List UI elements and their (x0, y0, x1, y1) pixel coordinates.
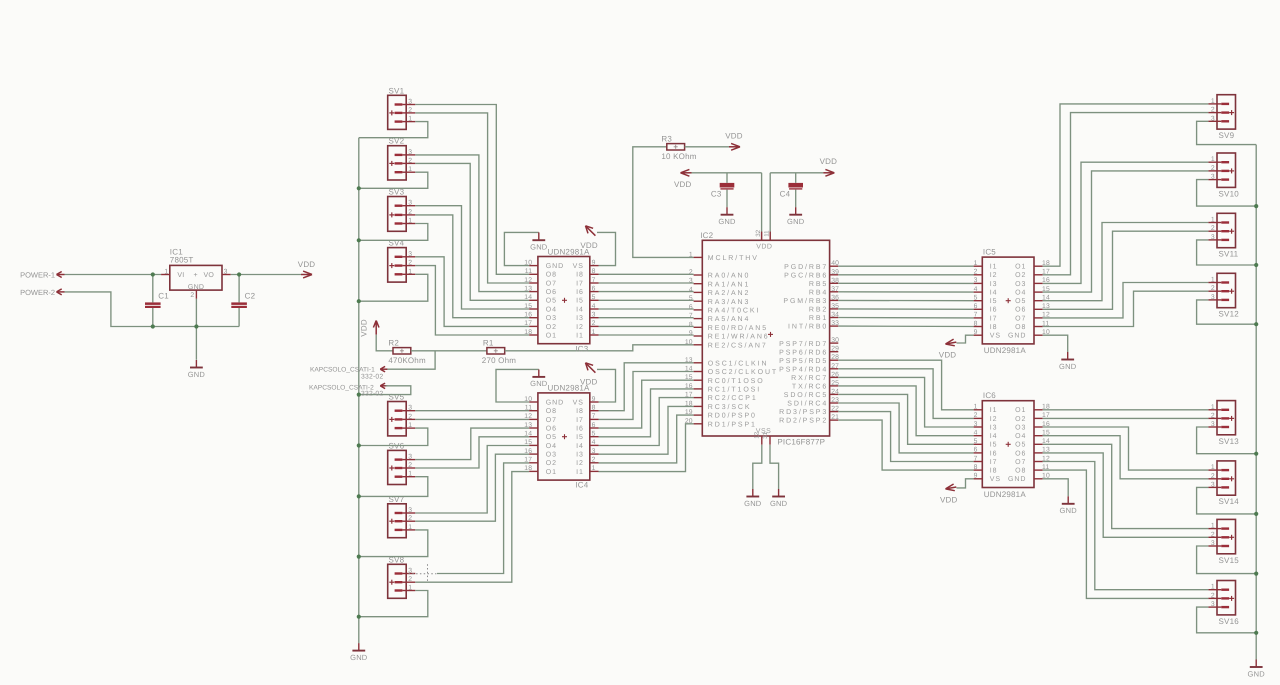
ground symbol (right bus) (1248, 660, 1266, 679)
wire IC2 pin 19 to IC4 pin 2 (599, 415, 694, 463)
wire SV2 to IC3 pin 14 (415, 163, 529, 300)
svg-text:GND: GND (188, 284, 204, 291)
svg-text:16: 16 (524, 448, 532, 455)
svg-text:I7: I7 (576, 417, 584, 424)
wire SV1 to IC3 pin 12 (415, 113, 529, 283)
svg-text:O3: O3 (1015, 424, 1026, 431)
svg-text:R2: R2 (388, 339, 399, 348)
connector SV10 (1208, 153, 1239, 198)
svg-text:VDD: VDD (756, 244, 772, 251)
svg-text:23: 23 (831, 397, 839, 404)
svg-text:12: 12 (524, 413, 532, 420)
svg-text:3: 3 (408, 507, 412, 514)
wire IC6 pin 18 to SV13 pin1 (1043, 409, 1209, 411)
svg-text:I7: I7 (990, 459, 998, 466)
svg-text:13: 13 (524, 422, 532, 429)
microcontroller IC2 PIC16F877P (685, 229, 839, 446)
svg-text:RA3/AN3: RA3/AN3 (708, 298, 750, 306)
svg-text:10 KOhm: 10 KOhm (661, 152, 696, 161)
svg-text:O7: O7 (546, 417, 557, 424)
svg-text:O2: O2 (1015, 272, 1026, 279)
wire IC2 pin 37 to IC5 pin 4 (838, 291, 973, 293)
connector SV3 (388, 188, 416, 232)
svg-text:3: 3 (408, 99, 412, 106)
svg-text:GND: GND (530, 243, 548, 252)
svg-text:IC2: IC2 (700, 231, 713, 240)
capacitor C2 (231, 292, 255, 309)
wire SV3 to IC3 pin 16 (415, 215, 529, 318)
svg-text:1: 1 (974, 260, 978, 267)
svg-text:R1: R1 (483, 339, 494, 348)
svg-text:C1: C1 (158, 292, 169, 301)
svg-text:UDN2981A: UDN2981A (984, 346, 1027, 355)
svg-text:I1: I1 (990, 407, 998, 414)
svg-text:VDD: VDD (725, 132, 743, 141)
svg-text:40: 40 (831, 260, 839, 267)
svg-text:GND: GND (1008, 476, 1026, 483)
supply symbol VDD (left of C3) (674, 169, 692, 189)
svg-text:O4: O4 (1015, 290, 1026, 297)
svg-text:O5: O5 (546, 298, 557, 305)
svg-text:2: 2 (1211, 225, 1215, 232)
svg-text:O5: O5 (1015, 298, 1026, 305)
connector SV14 (1208, 461, 1239, 506)
svg-text:12: 12 (753, 431, 760, 438)
svg-text:I2: I2 (990, 272, 998, 279)
wire IC3 pin 7 to IC2 pin 3 (599, 282, 694, 284)
svg-text:I6: I6 (576, 425, 584, 432)
svg-text:1: 1 (1211, 464, 1215, 471)
svg-text:I7: I7 (990, 315, 998, 322)
connector SV16 (1208, 581, 1239, 626)
svg-text:1: 1 (408, 524, 412, 531)
svg-text:SV9: SV9 (1219, 131, 1235, 140)
svg-text:9: 9 (592, 396, 596, 403)
wire IC5 pin 17 to SV9 (1043, 113, 1209, 275)
wire IC6 pin 15 to SV14 (1043, 436, 1209, 479)
svg-text:270 Ohm: 270 Ohm (482, 356, 516, 365)
svg-text:2: 2 (974, 269, 978, 276)
svg-text:O1: O1 (1015, 407, 1026, 414)
svg-text:35: 35 (831, 303, 839, 310)
svg-text:C4: C4 (780, 190, 791, 199)
wire C1 bottom (152, 308, 154, 327)
svg-text:RC0/T1OSO: RC0/T1OSO (708, 377, 765, 385)
wire IC2 pin 27 to IC6 pin 2 (838, 369, 973, 419)
junction dot (1254, 572, 1258, 576)
wire SV15 pin3 to GND bus (1197, 546, 1257, 574)
svg-text:8: 8 (974, 464, 978, 471)
svg-text:SV5: SV5 (389, 393, 405, 402)
wire IC1 VO to VDD (231, 274, 301, 276)
svg-text:GND: GND (1060, 506, 1078, 515)
driver IC6 UDN2981A (974, 391, 1050, 499)
wire IC2 pin11 to VDD right (770, 172, 823, 174)
pin label KAPCSOLO_CSATI-2 (309, 383, 387, 391)
svg-text:9: 9 (689, 330, 693, 337)
wire SV1 pin1 to GND bus (359, 122, 428, 138)
svg-text:6: 6 (689, 304, 693, 311)
connector SV2 (388, 137, 416, 180)
svg-text:21: 21 (831, 414, 839, 421)
pin label KAPCSOLO_CSATI-1 (310, 366, 387, 373)
svg-text:RA4/T0CKI: RA4/T0CKI (708, 307, 761, 315)
svg-text:KAPCSOLO_CSATI-1: KAPCSOLO_CSATI-1 (310, 366, 375, 373)
junction dot (194, 324, 198, 328)
wire IC2 pin 26 to IC6 pin 3 (838, 377, 973, 427)
svg-text:470KOhm: 470KOhm (388, 356, 426, 365)
value label 332-02 (1) (361, 373, 383, 380)
wire KAPCSOLO_CSATI-2 to GND bus (359, 386, 411, 395)
wire C3 bottom (726, 190, 728, 208)
wire C4 bottom (795, 190, 797, 208)
connector SV11 (1208, 213, 1238, 258)
svg-text:17: 17 (524, 320, 532, 327)
wire IC3 pin 3 to IC2 pin 7 (599, 317, 694, 319)
svg-text:INT/RB0: INT/RB0 (788, 323, 828, 331)
svg-text:RB2: RB2 (809, 307, 828, 314)
svg-text:GND: GND (188, 370, 206, 379)
voltage regulator IC1 7805T (161, 247, 231, 299)
wire SV8 to IC4 pin 18 (415, 472, 529, 583)
svg-text:RD3/PSP3: RD3/PSP3 (779, 408, 828, 416)
wire R2 net to KAPCSOLO_CSATI-1 (386, 351, 436, 369)
svg-text:O1: O1 (546, 332, 557, 339)
connector SV15 (1208, 519, 1239, 564)
supply symbol VDD (IC4) (580, 363, 598, 387)
capacitor C4 (780, 183, 803, 199)
svg-text:SV16: SV16 (1219, 617, 1240, 626)
wire VDD to R2 (376, 335, 393, 351)
svg-text:VS: VS (990, 333, 1001, 340)
svg-text:SV1: SV1 (389, 86, 405, 95)
wire IC6 VS to VDD (957, 479, 974, 488)
svg-text:RD0/PSP0: RD0/PSP0 (708, 412, 757, 420)
svg-text:3: 3 (408, 200, 412, 207)
svg-text:I4: I4 (990, 433, 998, 440)
wire SV7 to IC4 pin 16 (415, 454, 529, 521)
wire POWER-2 to GND rail (65, 292, 240, 327)
wire IC3 pin 2 to IC2 pin 8 (599, 325, 694, 327)
svg-text:I8: I8 (990, 468, 998, 475)
wire IC2 pin 17 to IC4 pin 4 (599, 398, 694, 446)
supply symbol VDD (IC6) (940, 484, 958, 504)
driver IC3 UDN2981A (524, 247, 598, 353)
wire SV5 pin1 to GND bus (359, 428, 428, 445)
wire IC5 pin 15 to SV10 (1043, 171, 1209, 292)
svg-text:1: 1 (592, 465, 596, 472)
wire IC2 pin 13 to IC4 pin 8 (599, 363, 694, 411)
svg-text:I6: I6 (990, 307, 998, 314)
svg-text:3: 3 (1211, 174, 1215, 181)
wire SV11 pin3 to GND bus (1197, 240, 1257, 265)
svg-text:O5: O5 (546, 434, 557, 441)
pin label POWER-2 (20, 288, 64, 297)
svg-text:OSC2/CLKOUT: OSC2/CLKOUT (708, 368, 778, 376)
svg-text:RX/RC7: RX/RC7 (791, 374, 828, 382)
junction dot (357, 238, 361, 242)
svg-text:+: + (194, 272, 198, 279)
wire IC3 GND pin (504, 232, 538, 265)
crosshair marker (SV8) (409, 564, 437, 582)
svg-text:O4: O4 (546, 306, 557, 313)
svg-text:I4: I4 (576, 443, 584, 450)
svg-text:1: 1 (1211, 156, 1215, 163)
wire SV7 pin1 to GND bus (359, 530, 428, 557)
svg-text:PIC16F877P: PIC16F877P (777, 437, 825, 446)
svg-text:O3: O3 (546, 315, 557, 322)
svg-text:1: 1 (1211, 98, 1215, 105)
wire IC2 pin 28 to IC6 pin 1 (838, 360, 973, 410)
svg-text:7: 7 (592, 413, 596, 420)
svg-text:1: 1 (408, 471, 412, 478)
wire R2 to R1 (411, 350, 487, 352)
svg-text:3: 3 (1211, 601, 1215, 608)
svg-text:O3: O3 (1015, 281, 1026, 288)
svg-text:I3: I3 (576, 315, 584, 322)
connector SV13 (1208, 401, 1239, 446)
svg-text:PSP6/RD6: PSP6/RD6 (779, 348, 828, 356)
wire IC4 VS pin to VDD (597, 369, 616, 402)
svg-text:9: 9 (592, 259, 596, 266)
svg-text:I3: I3 (576, 452, 584, 459)
svg-text:RB5: RB5 (809, 281, 828, 288)
connector SV12 (1208, 273, 1239, 318)
wire IC5 pin 12 to SV12 (1043, 283, 1209, 318)
svg-text:18: 18 (524, 329, 532, 336)
svg-text:1: 1 (974, 404, 978, 411)
svg-text:I1: I1 (576, 469, 584, 476)
svg-text:4: 4 (592, 303, 596, 310)
svg-text:28: 28 (831, 354, 839, 361)
svg-text:2: 2 (408, 107, 412, 114)
svg-text:8: 8 (592, 268, 596, 275)
wire SV2 to IC3 pin 13 (415, 155, 529, 292)
svg-text:I2: I2 (576, 460, 584, 467)
svg-text:1: 1 (408, 116, 412, 123)
resistor R1 270 Ohm (482, 339, 516, 365)
svg-text:11: 11 (525, 268, 532, 275)
wire IC2 pin 25 to IC6 pin 4 (838, 386, 973, 436)
svg-text:6: 6 (974, 447, 978, 454)
ground symbol (IC1) (188, 360, 206, 379)
ground symbol (IC2 pin31) (770, 489, 788, 508)
svg-text:TX/RC6: TX/RC6 (792, 383, 828, 391)
svg-text:2: 2 (592, 457, 596, 464)
svg-text:GND: GND (1008, 333, 1026, 340)
svg-text:RC1/T1OSI: RC1/T1OSI (708, 386, 761, 394)
wire SV7 to IC4 pin 15 (415, 446, 529, 514)
svg-text:22: 22 (831, 406, 839, 413)
svg-text:IC4: IC4 (575, 481, 588, 490)
svg-text:3: 3 (974, 277, 978, 284)
wire IC6 pin 14 to SV15 (1043, 444, 1209, 528)
junction dot (357, 555, 361, 559)
svg-text:33: 33 (831, 320, 839, 327)
connector SV5 (388, 393, 416, 436)
wire SV10 pin3 to GND bus (1197, 180, 1257, 207)
wire IC6 GND pin (1043, 479, 1069, 497)
svg-text:I8: I8 (990, 324, 998, 331)
svg-text:GND: GND (350, 653, 368, 662)
wire R3 to VDD (685, 146, 729, 148)
svg-text:2: 2 (1211, 285, 1215, 292)
wire IC5 pin 11 to SV12 (1043, 291, 1209, 326)
wire SV1 to IC3 pin 11 (415, 105, 529, 275)
svg-text:C2: C2 (245, 292, 256, 301)
svg-text:PGD/RB7: PGD/RB7 (784, 263, 828, 271)
wire IC2 pin1 MCLR to R3 (633, 147, 694, 258)
wire SV4 to IC3 pin 17 (415, 257, 529, 327)
wire IC6 pin 17 to SV13 pin2 (1043, 417, 1209, 419)
svg-text:SV12: SV12 (1219, 310, 1240, 319)
wire SV6 to IC4 pin 13 (415, 428, 529, 460)
capacitor C1 (145, 292, 169, 309)
svg-text:SDO/RC5: SDO/RC5 (784, 391, 828, 399)
wire IC2 pin 15 to IC4 pin 6 (599, 380, 694, 428)
svg-text:7: 7 (974, 312, 978, 319)
junction dot (357, 494, 361, 498)
wire SV3 to IC3 pin 15 (415, 206, 529, 309)
svg-text:3: 3 (1211, 421, 1215, 428)
svg-text:3: 3 (408, 251, 412, 258)
svg-text:5: 5 (592, 431, 596, 438)
svg-text:PGC/RB6: PGC/RB6 (784, 271, 828, 279)
wire IC4 GND pin (496, 369, 539, 402)
svg-text:14: 14 (524, 431, 532, 438)
wire IC2 pin11 stub (769, 173, 771, 241)
svg-text:GND: GND (718, 217, 736, 226)
svg-text:OSC1/CLKIN: OSC1/CLKIN (708, 359, 769, 367)
svg-text:6: 6 (974, 303, 978, 310)
svg-text:15: 15 (524, 439, 532, 446)
svg-text:O8: O8 (1015, 468, 1026, 475)
svg-text:RB1: RB1 (809, 315, 828, 322)
connector SV1 (388, 86, 416, 129)
svg-text:I2: I2 (576, 324, 584, 331)
svg-text:I6: I6 (990, 450, 998, 457)
svg-text:GND: GND (1059, 362, 1077, 371)
svg-text:12: 12 (524, 277, 532, 284)
svg-text:1: 1 (164, 268, 168, 275)
svg-text:I3: I3 (990, 281, 998, 288)
svg-text:3: 3 (224, 268, 228, 275)
junction dot (357, 615, 361, 619)
wire POWER-1 to IC1 VI (65, 274, 162, 276)
svg-text:2: 2 (1211, 107, 1215, 114)
wire IC3 VS pin to VDD (597, 232, 616, 265)
wire SV4 pin1 to GND bus (359, 274, 428, 301)
svg-text:2: 2 (408, 576, 412, 583)
supply symbol VDD (power section) (298, 260, 316, 278)
svg-text:6: 6 (592, 285, 596, 292)
wire C1 top (152, 275, 154, 303)
svg-text:37: 37 (831, 286, 839, 293)
junction dot (1254, 204, 1258, 208)
svg-text:GND: GND (787, 217, 805, 226)
wire IC6 pin 13 to SV15 (1043, 453, 1209, 537)
svg-text:GND: GND (546, 399, 564, 406)
svg-text:UDN2981A: UDN2981A (984, 490, 1027, 499)
svg-text:1: 1 (408, 268, 412, 275)
svg-text:O2: O2 (546, 324, 557, 331)
wire SV14 pin3 to GND bus (1197, 487, 1257, 514)
wire C4 top (795, 173, 797, 183)
svg-text:VI: VI (177, 272, 184, 279)
svg-text:GND: GND (744, 499, 762, 508)
wire IC2 pin 14 to IC4 pin 7 (599, 372, 694, 420)
svg-text:2: 2 (190, 292, 194, 299)
svg-text:3: 3 (1211, 115, 1215, 122)
ground symbol (left bus) (350, 643, 368, 662)
connector SV9 (1208, 95, 1235, 140)
svg-text:VDD: VDD (940, 495, 958, 504)
svg-text:I5: I5 (990, 442, 998, 449)
svg-text:RD2/PSP2: RD2/PSP2 (779, 417, 828, 425)
svg-text:SV10: SV10 (1219, 189, 1240, 198)
svg-text:VDD: VDD (298, 260, 316, 269)
svg-text:2: 2 (1211, 531, 1215, 538)
svg-text:I4: I4 (576, 306, 584, 313)
svg-text:2: 2 (592, 320, 596, 327)
svg-text:332-02: 332-02 (361, 373, 383, 380)
svg-text:8: 8 (974, 320, 978, 327)
wire IC2 pin 39 to IC5 pin 2 (838, 274, 973, 276)
svg-text:26: 26 (831, 371, 839, 378)
svg-text:16: 16 (524, 312, 532, 319)
resistor R2 470KOhm (388, 339, 426, 365)
svg-text:RA1/AN1: RA1/AN1 (708, 280, 750, 288)
svg-text:RA5/AN4: RA5/AN4 (708, 315, 750, 323)
svg-text:31: 31 (762, 431, 769, 438)
wire IC6 pin 16 to SV14 (1043, 427, 1209, 470)
svg-text:17: 17 (524, 457, 532, 464)
wire IC1 GND pin down (195, 299, 197, 360)
svg-text:RE1/WR/AN6: RE1/WR/AN6 (708, 333, 770, 341)
svg-text:RA0/AN0: RA0/AN0 (708, 272, 750, 280)
wire IC2 pin32 stub (761, 173, 763, 241)
svg-text:R3: R3 (661, 135, 672, 144)
driver IC5 UDN2981A (974, 248, 1050, 356)
driver IC4 UDN2981A (524, 384, 598, 490)
svg-text:O8: O8 (546, 272, 557, 279)
supply symbol VDD (IC3) (580, 226, 598, 250)
svg-text:C3: C3 (711, 190, 722, 199)
wire SV5 pin2 to IC4 pin 12 (415, 418, 529, 420)
svg-text:SV13: SV13 (1219, 437, 1240, 446)
svg-text:2: 2 (408, 515, 412, 522)
wire IC5 pin 14 to SV11 (1043, 223, 1209, 301)
wire IC6 pin 12 to SV16 (1043, 462, 1209, 590)
svg-text:2: 2 (1211, 165, 1215, 172)
wire IC3 pin 4 to IC2 pin 6 (599, 308, 694, 310)
wire left GND bus (358, 138, 360, 643)
svg-text:PGM/RB3: PGM/RB3 (783, 297, 828, 305)
svg-text:VDD: VDD (580, 241, 598, 250)
svg-text:SV11: SV11 (1219, 250, 1239, 259)
wire SV4 to IC3 pin 18 (415, 266, 529, 335)
svg-text:6: 6 (592, 422, 596, 429)
supply symbol VDD (R3) (725, 132, 743, 151)
wire IC2 pin 34 to IC5 pin 7 (838, 317, 973, 319)
svg-text:5: 5 (974, 438, 978, 445)
wire SV8 pin1 to GND bus (359, 591, 428, 617)
svg-text:O3: O3 (546, 452, 557, 459)
wire right GND bus (1255, 145, 1257, 660)
svg-text:I5: I5 (576, 298, 584, 305)
svg-text:IC5: IC5 (983, 248, 996, 257)
svg-text:VDD: VDD (360, 319, 369, 337)
